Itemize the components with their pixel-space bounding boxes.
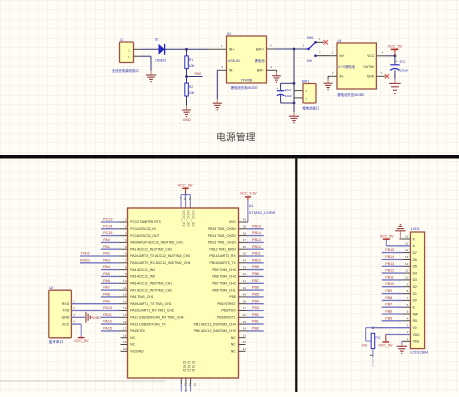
ground: [272, 72, 281, 84]
junction: [372, 326, 375, 329]
wire net PA2: [80, 255, 128, 257]
svg-text:23: 23: [243, 333, 247, 337]
svg-text:PA8: PA8: [103, 293, 110, 297]
svg-text:PC13: PC13: [103, 218, 112, 222]
svg-text:PA7 ADC12_IN7/TIM3_CH2: PA7 ADC12_IN7/TIM3_CH2: [130, 288, 172, 292]
svg-text:10K: 10K: [189, 91, 196, 95]
svg-text:PA6 ADC12_IN6/TIM3_CH1: PA6 ADC12_IN6/TIM3_CH1: [130, 282, 172, 286]
wire net PB12: [382, 272, 411, 274]
pin GND bottom: [180, 378, 182, 392]
svg-text:R1: R1: [189, 58, 193, 62]
power port VCC_5V: [74, 337, 89, 343]
junction: [185, 48, 188, 51]
IC U4 boost: [337, 39, 376, 89]
svg-text:锂电池升压MODE: 锂电池升压MODE: [337, 92, 365, 97]
wire net PC14: [101, 228, 128, 230]
wire net PA15: [101, 330, 128, 332]
svg-text:EC1: EC1: [400, 60, 406, 64]
svg-text:电源管理: 电源管理: [216, 130, 256, 143]
resistor R2 10K: [185, 83, 196, 96]
wire net PA1: [101, 248, 128, 250]
svg-text:PA0: PA0: [195, 72, 202, 76]
wire net PB0: [239, 330, 264, 332]
junction node PA0: [185, 75, 188, 78]
svg-text:锂电池充电MODE: 锂电池充电MODE: [231, 85, 259, 90]
wire VCC pin drop: [185, 195, 187, 208]
svg-text:NC/GND: NC/GND: [130, 350, 144, 354]
junction: [394, 54, 397, 57]
wire VCC to node: [387, 55, 395, 57]
no-ERC marker: [385, 74, 389, 78]
pin LCD1.3 wire: [373, 323, 411, 327]
svg-text:PA15: PA15: [103, 327, 112, 331]
power port VCC_5V inverted: [378, 335, 393, 348]
wire net PC13: [101, 221, 128, 223]
pin BAT1.2: [294, 90, 303, 92]
pin GND bottom: [190, 378, 192, 392]
svg-text:VCC_5V: VCC_5V: [380, 235, 395, 239]
wire battery to ground: [293, 103, 295, 112]
svg-text:37: 37: [243, 238, 247, 242]
svg-text:15: 15: [123, 313, 127, 317]
svg-text:14: 14: [405, 248, 409, 252]
pin J1.1: [134, 55, 142, 57]
wire EC1 to ground: [394, 70, 396, 79]
svg-text:13: 13: [123, 299, 127, 303]
svg-text:PB7: PB7: [385, 303, 392, 307]
svg-text:BAT+: BAT+: [256, 48, 264, 52]
svg-text:NC: NC: [130, 336, 135, 340]
svg-text:IN+: IN+: [229, 48, 234, 52]
svg-text:U3: U3: [227, 32, 231, 36]
screenshot seam: [0, 380, 165, 382]
junction: [293, 102, 296, 105]
pin names VCC_3V rotated: [182, 210, 196, 227]
svg-text:PB8 TIM4_CH3: PB8 TIM4_CH3: [212, 275, 235, 279]
svg-text:18: 18: [123, 333, 127, 337]
resistor R11 100: [362, 333, 381, 348]
svg-text:38: 38: [243, 231, 247, 235]
svg-text:RW: RW: [413, 312, 419, 316]
resistor R1 10K: [185, 56, 196, 69]
svg-text:VCC_3.3V: VCC_3.3V: [240, 192, 257, 196]
svg-text:PA7: PA7: [103, 286, 110, 290]
ground inverted: [395, 224, 405, 239]
IC U3 TP4056: [227, 32, 267, 83]
svg-text:GND: GND: [186, 361, 191, 373]
wire net PB5: [239, 296, 264, 298]
svg-text:EC2: EC2: [285, 88, 291, 92]
svg-text:PA4 ADC12_IN4: PA4 ADC12_IN4: [130, 268, 155, 272]
svg-text:VCC_3V: VCC_3V: [191, 210, 196, 227]
svg-text:PB15: PB15: [385, 248, 394, 252]
wire battery net vertical: [293, 49, 295, 103]
svg-text:17: 17: [123, 327, 127, 331]
pin numbers top: [179, 197, 192, 200]
svg-text:20: 20: [123, 347, 127, 351]
svg-text:PC15/OSC32_OUT: PC15/OSC32_OUT: [130, 234, 159, 238]
wire net PA8: [101, 296, 128, 298]
wire net PB13: [239, 241, 264, 243]
svg-text:NC: NC: [130, 343, 135, 347]
svg-text:+: +: [396, 60, 398, 64]
wire net PA7: [101, 289, 128, 291]
svg-text:19: 19: [123, 340, 127, 344]
svg-text:PB10: PB10: [252, 258, 261, 262]
wire net PA12: [101, 323, 128, 325]
svg-text:SW: SW: [307, 59, 312, 63]
wire U4 IN- to ground: [327, 76, 329, 79]
svg-text:14: 14: [123, 306, 127, 310]
svg-text:RXD2: RXD2: [80, 258, 90, 262]
svg-text:SW1: SW1: [307, 36, 314, 40]
svg-text:16: 16: [123, 320, 127, 324]
svg-text:34: 34: [243, 259, 247, 263]
svg-text:PB2: PB2: [252, 313, 259, 317]
svg-text:PA8 TIM1_CH1: PA8 TIM1_CH1: [130, 295, 153, 299]
pin U3.2 IN-: [217, 65, 226, 70]
no-ERC marker: [324, 40, 328, 44]
wire net PA9: [71, 303, 127, 305]
wire net PB14: [382, 259, 411, 261]
pin U2.3: [71, 313, 84, 317]
svg-text:PB13: PB13: [385, 262, 394, 266]
pin BAT1.1: [294, 97, 303, 99]
wire D1 to U3: [165, 48, 207, 50]
ground: [324, 79, 333, 91]
ground GND: [182, 106, 191, 118]
MCU U1 STM32_CORE: [128, 208, 239, 378]
diode D1: [155, 37, 167, 62]
svg-text:5VD: 5VD: [229, 220, 236, 224]
svg-text:GND: GND: [183, 118, 192, 122]
svg-text:PA0/WKUP ADC12_IN0/TIM2_CH1: PA0/WKUP ADC12_IN0/TIM2_CH1: [130, 241, 183, 245]
pin GND bottom: [185, 378, 187, 392]
svg-text:PB12 TIM1_BKIN: PB12 TIM1_BKIN: [209, 247, 236, 251]
wire net PB6: [239, 289, 264, 291]
svg-text:PC14: PC14: [103, 224, 112, 228]
svg-text:PA10: PA10: [103, 306, 112, 310]
svg-text:D0: D0: [413, 299, 417, 303]
svg-text:NC: NC: [231, 336, 236, 340]
svg-text:VCC_3V: VCC_3V: [186, 210, 191, 227]
svg-text:PB0: PB0: [252, 327, 259, 331]
ground rotated: [85, 312, 93, 323]
wire net PB13: [382, 265, 411, 267]
power port VCC_3V: [178, 183, 193, 194]
wire net PB11: [239, 255, 264, 257]
pin U4.2 IN-: [328, 71, 337, 76]
wire net PB7: [239, 282, 264, 284]
svg-text:IN-: IN-: [229, 69, 233, 73]
svg-text:VSS: VSS: [413, 340, 420, 344]
svg-text:BAT1: BAT1: [302, 79, 310, 83]
section divider horizontal: [0, 155, 459, 159]
wire net PB10: [239, 262, 264, 264]
wire net PB9: [239, 269, 264, 271]
ground: [389, 79, 401, 94]
junction: [184, 193, 186, 195]
svg-text:25: 25: [243, 320, 247, 324]
section divider vertical: [295, 159, 297, 392]
svg-text:LCD12864: LCD12864: [410, 351, 428, 355]
svg-text:29: 29: [243, 293, 247, 297]
wire J1.2 to D1: [141, 48, 159, 50]
svg-text:RS: RS: [413, 319, 418, 323]
wire net PB14: [239, 235, 264, 237]
svg-text:PA15/TDI: PA15/TDI: [130, 329, 144, 333]
wire net PA3: [80, 262, 128, 264]
svg-text:OUT5V: OUT5V: [363, 65, 375, 69]
wire net PB1: [239, 323, 264, 325]
svg-text:12: 12: [405, 262, 409, 266]
svg-text:GND: GND: [62, 316, 70, 320]
junction: [293, 48, 296, 51]
svg-text:PB8: PB8: [385, 296, 392, 300]
wire net PA11: [101, 316, 128, 318]
svg-text:PB4 NTRST: PB4 NTRST: [217, 302, 235, 306]
svg-text:10: 10: [405, 276, 409, 280]
svg-text:PB14 TIM1_CH2N: PB14 TIM1_CH2N: [208, 234, 236, 238]
power port VCC_5V: [388, 45, 403, 56]
svg-text:PB3: PB3: [252, 306, 259, 310]
wire VCC pin drop: [189, 195, 191, 208]
pin 19 NC: [121, 340, 128, 344]
svg-text:PB2/BOOT1: PB2/BOOT1: [217, 316, 236, 320]
wire EC2 loop left upper: [280, 83, 282, 90]
svg-text:PA9/UART1_TX TIM1_CH2: PA9/UART1_TX TIM1_CH2: [130, 302, 171, 306]
svg-text:D1: D1: [155, 37, 159, 41]
svg-text:1N5819: 1N5819: [155, 59, 166, 63]
svg-text:PA3: PA3: [103, 258, 110, 262]
svg-text:NC: NC: [231, 343, 236, 347]
svg-text:PB11: PB11: [252, 252, 261, 256]
svg-text:J1: J1: [120, 38, 124, 42]
svg-text:PA3/UART2_RX ADC12_IN3/TIM2_CH: PA3/UART2_RX ADC12_IN3/TIM2_CH4: [130, 261, 190, 265]
svg-text:3.7V锂电池: 3.7V锂电池: [338, 64, 355, 69]
svg-text:PB8: PB8: [252, 272, 259, 276]
svg-text:D1: D1: [413, 292, 417, 296]
svg-text:PB15 TIM1_CH3N: PB15 TIM1_CH3N: [208, 227, 236, 231]
svg-text:PB13 TIM1_CH1N: PB13 TIM1_CH1N: [208, 241, 236, 245]
svg-text:31: 31: [184, 383, 188, 387]
svg-text:PA5: PA5: [103, 272, 110, 276]
connector LCD1: [410, 232, 424, 349]
svg-text:PA1: PA1: [103, 245, 110, 249]
wire net PA0: [101, 241, 128, 243]
pin U3.3 BAT-: [267, 65, 277, 70]
ground: [146, 71, 156, 83]
svg-text:PB9 TIM4_CH4: PB9 TIM4_CH4: [212, 268, 235, 272]
power port VCC_5V: [380, 235, 395, 240]
pin J1.2: [134, 48, 142, 50]
svg-text:VCC: VCC: [367, 54, 375, 58]
wire net PB10: [382, 286, 411, 288]
svg-text:35: 35: [243, 252, 247, 256]
svg-text:PA2/UART2_TX ADC12_IN2/TIM2_CH: PA2/UART2_TX ADC12_IN2/TIM2_CH3: [130, 254, 190, 258]
svg-text:13: 13: [405, 255, 409, 259]
wire net PA6: [101, 282, 128, 284]
svg-text:11: 11: [405, 269, 408, 273]
wire PA0 stub: [187, 76, 203, 78]
wire U3 IN- to ground: [216, 70, 218, 99]
junction: [185, 390, 187, 392]
svg-text:PB12: PB12: [385, 269, 394, 273]
pin U4.3 GND: [376, 71, 385, 76]
svg-text:LCD1: LCD1: [411, 227, 420, 231]
svg-text:锂电池接口: 锂电池接口: [302, 105, 319, 110]
svg-text:D4: D4: [413, 271, 417, 275]
svg-text:无线充电模块接口: 无线充电模块接口: [112, 68, 139, 73]
svg-text:VCC_5V: VCC_5V: [378, 344, 393, 348]
power port VCC_3.3V: [240, 192, 257, 200]
wire net PB8: [382, 299, 411, 301]
svg-text:PA0: PA0: [103, 238, 110, 242]
svg-text:32: 32: [243, 272, 247, 276]
svg-text:30: 30: [243, 286, 247, 290]
svg-text:R2: R2: [189, 85, 193, 89]
svg-text:PB6 TIM4_CH1: PB6 TIM4_CH1: [212, 288, 235, 292]
svg-text:TP4056: TP4056: [241, 79, 253, 83]
ground: [289, 112, 299, 124]
svg-text:蓝牙串口: 蓝牙串口: [49, 339, 64, 344]
connector U2: [49, 286, 72, 338]
pin 21 NC: [239, 347, 247, 351]
svg-text:PB5: PB5: [252, 293, 259, 297]
svg-text:PA11: PA11: [103, 313, 111, 317]
svg-text:28: 28: [243, 299, 247, 303]
pin LCD1.1: [402, 337, 411, 341]
svg-text:31: 31: [243, 279, 247, 283]
svg-text:VCC_5V: VCC_5V: [388, 45, 403, 49]
pin U3.4 BAT+: [267, 44, 275, 49]
svg-text:BAT-: BAT-: [257, 69, 264, 73]
wire BAT+ rail: [274, 48, 308, 50]
wire net PB9: [382, 293, 411, 295]
pin 22 NC: [239, 340, 247, 344]
svg-text:PB6: PB6: [385, 310, 392, 314]
svg-text:+: +: [276, 86, 278, 90]
svg-text:IN-: IN-: [340, 75, 344, 79]
svg-text:PA12: PA12: [103, 320, 112, 324]
svg-text:63: 63: [193, 383, 197, 387]
svg-text:V0: V0: [413, 326, 417, 330]
pin 23 NC: [239, 333, 247, 337]
svg-text:PA12 USB/DP/CAN_TX: PA12 USB/DP/CAN_TX: [130, 322, 166, 326]
pin LCD1.15 wire: [386, 240, 410, 246]
svg-text:21: 21: [243, 347, 247, 351]
svg-text:100: 100: [362, 344, 368, 348]
pin numbers bottom: [184, 383, 197, 387]
wire net PB2: [239, 316, 264, 318]
svg-text:12: 12: [123, 293, 127, 297]
capacitor EC2 10uF: [276, 86, 292, 98]
svg-text:24: 24: [243, 327, 247, 331]
svg-text:27: 27: [243, 306, 247, 310]
svg-text:D6: D6: [413, 258, 417, 262]
pin 20 NC: [121, 347, 128, 351]
svg-text:GND: GND: [191, 361, 196, 373]
svg-text:PB1 ADC12_IN9/TIM3_CH4: PB1 ADC12_IN9/TIM3_CH4: [194, 322, 236, 326]
svg-text:PB5: PB5: [229, 295, 235, 299]
svg-text:VCC_3V: VCC_3V: [178, 183, 193, 187]
svg-text:47: 47: [188, 383, 192, 387]
svg-text:PB4: PB4: [252, 299, 259, 303]
wire EC2 loop left lower: [280, 95, 282, 103]
svg-text:PA5 ADC12_IN5: PA5 ADC12_IN5: [130, 275, 155, 279]
svg-text:GND: GND: [367, 75, 375, 79]
svg-text:VDD: VDD: [413, 333, 421, 337]
wire R1 to R2: [186, 69, 188, 83]
svg-text:26: 26: [243, 313, 247, 317]
wire net PA5: [101, 275, 128, 277]
svg-text:D7: D7: [413, 251, 417, 255]
svg-text:10K: 10K: [189, 64, 196, 68]
svg-text:TXD: TXD: [62, 309, 69, 313]
svg-text:R11: R11: [375, 335, 381, 339]
svg-text:STM32_CORE: STM32_CORE: [249, 210, 276, 215]
svg-text:IN+: IN+: [340, 54, 345, 58]
svg-text:10uF: 10uF: [285, 94, 292, 98]
svg-text:VCC_5V: VCC_5V: [74, 339, 89, 343]
svg-text:VCC_3V: VCC_3V: [182, 210, 187, 227]
wire net PA10: [71, 310, 127, 312]
svg-text:220uF: 220uF: [400, 68, 409, 72]
svg-text:PB5: PB5: [385, 316, 392, 320]
wire junction to R1: [186, 49, 188, 56]
pin 18 NC: [121, 333, 128, 337]
svg-text:RXD: RXD: [62, 302, 70, 306]
wire net PB12: [239, 248, 264, 250]
wire net PB4: [239, 303, 264, 305]
svg-text:U2: U2: [49, 286, 53, 290]
svg-text:VCC: VCC: [62, 322, 70, 326]
pin U3.1 IN+: [207, 44, 227, 49]
pin U2.4 wire to VCC_5V: [71, 320, 81, 337]
wire J1.1 to ground: [141, 56, 151, 70]
svg-text:PA2: PA2: [103, 252, 110, 256]
wire R2 to ground: [186, 96, 188, 106]
svg-text:PB11: PB11: [385, 275, 394, 279]
svg-text:PB7 TIM4_CH2: PB7 TIM4_CH2: [212, 282, 235, 286]
wire node to EC1: [394, 56, 396, 64]
switch SW1: [303, 36, 334, 63]
svg-text:22: 22: [243, 340, 247, 344]
svg-text:USB-5V: USB-5V: [228, 59, 241, 63]
wire jog: [366, 328, 373, 341]
svg-text:PA11 USB/DM/CAN_RX TIM1_CH4: PA11 USB/DM/CAN_RX TIM1_CH4: [130, 316, 183, 320]
pin U4.1 IN+: [331, 55, 337, 57]
svg-text:10: 10: [123, 279, 127, 283]
pin LCD1.2 wire: [386, 330, 411, 334]
svg-text:40: 40: [243, 218, 247, 222]
svg-text:15: 15: [405, 241, 409, 245]
svg-text:PA10/UART1_RX TIM1_CH3: PA10/UART1_RX TIM1_CH3: [130, 309, 173, 313]
wire net PB7: [382, 306, 411, 308]
svg-text:PB9: PB9: [252, 265, 259, 269]
svg-text:锂电池: 锂电池: [255, 58, 266, 63]
pin U4.4 VCC: [376, 50, 387, 55]
wire net PB15: [382, 252, 411, 254]
wire net PB8: [239, 275, 264, 277]
wire net PC15: [101, 235, 128, 237]
wire pin40 to VCC_3.3V: [239, 200, 248, 222]
svg-text:PA6: PA6: [103, 279, 110, 283]
svg-text:16: 16: [405, 235, 409, 239]
svg-text:PB0 ADC12_IN8/TIM3_CH3: PB0 ADC12_IN8/TIM3_CH3: [194, 329, 236, 333]
svg-text:D2: D2: [413, 285, 417, 289]
wire net PB6: [382, 313, 411, 315]
